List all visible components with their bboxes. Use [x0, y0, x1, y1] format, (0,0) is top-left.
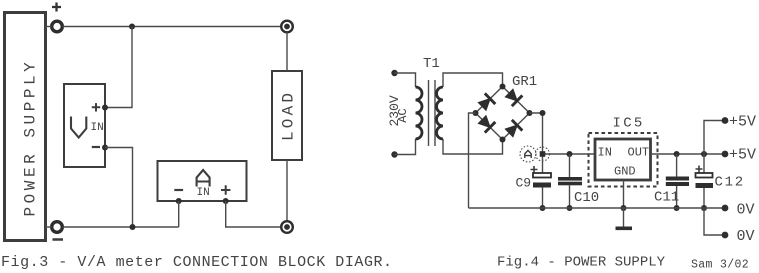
capacitor C11 bottom plate — [666, 182, 689, 186]
node C10 rail — [567, 205, 573, 211]
wire bridge minus to 0V rail — [469, 113, 476, 208]
transformer T1 core — [429, 80, 436, 146]
transformer T1 secondary winding — [437, 87, 444, 139]
wire C10 top — [569, 154, 571, 177]
wire A+ to load terminal — [226, 201, 280, 227]
node bridge top vertex — [500, 84, 506, 90]
svg-text:Fig.4 - POWER SUPPLY: Fig.4 - POWER SUPPLY — [497, 255, 666, 271]
wire A- drop — [178, 201, 180, 227]
node C12 rail — [701, 205, 707, 211]
node measuring point — [540, 151, 546, 157]
wire V+ drop — [105, 27, 132, 108]
terminal +5V upper — [722, 117, 729, 124]
capacitor C10 top plate — [558, 177, 582, 181]
capacitor C9 plus symbol — [531, 166, 538, 173]
measuring point circle — [536, 147, 550, 161]
capacitor C10 bottom plate — [558, 182, 582, 186]
voltmeter plus symbol — [92, 103, 100, 111]
node C9 rail — [540, 205, 546, 211]
node A+ — [223, 198, 229, 204]
wire C12 to rail — [703, 188, 705, 208]
wire terminal to LOAD top — [286, 32, 288, 71]
svg-text:C9: C9 — [516, 176, 532, 191]
ground symbol — [616, 227, 633, 231]
diode D-bottomright — [504, 120, 522, 138]
terminal T1 bottom — [391, 151, 397, 157]
node IN wire C10 — [567, 151, 573, 157]
IC5 regulator box — [595, 139, 651, 180]
node bottom rail V- — [130, 224, 136, 230]
svg-text:0V: 0V — [737, 202, 755, 219]
load block — [272, 71, 302, 160]
wire measuring point to IC5 IN — [543, 153, 596, 155]
wire C12 top — [703, 154, 705, 173]
wire IC5 GND to rail — [623, 180, 625, 208]
wire secondary top to bridge — [443, 73, 503, 87]
svg-text:C12: C12 — [715, 175, 745, 191]
node inside bottom right terminal — [284, 224, 290, 230]
svg-text:T1: T1 — [423, 56, 440, 72]
svg-text:C10: C10 — [574, 190, 599, 206]
diode D-bottomleft — [477, 114, 495, 132]
wire top rail — [63, 26, 280, 28]
ammeter A glyph — [197, 170, 210, 187]
node A- — [176, 198, 182, 204]
node OUT C11 — [674, 151, 680, 157]
terminal bottom right — [281, 221, 293, 233]
wire +5V upper branch — [704, 121, 725, 155]
bridge rectifier GR1 diamond — [476, 87, 530, 140]
wire V- drop — [105, 148, 133, 228]
svg-text:GR1: GR1 — [512, 74, 537, 90]
wire T1 primary top — [395, 73, 416, 87]
svg-text:IN: IN — [598, 146, 612, 160]
node V- — [102, 145, 108, 151]
minus symbol at PS bottom terminal — [53, 238, 64, 241]
wire PS+ stub — [46, 26, 52, 28]
wire T1 primary bottom — [395, 139, 416, 155]
capacitor C12 plus symbol — [696, 166, 703, 173]
ammeter minus symbol — [174, 189, 183, 191]
svg-text:OUT: OUT — [628, 146, 650, 160]
capacitor C11 top plate — [666, 177, 689, 181]
capacitor C9 top plate — [533, 173, 551, 178]
terminal +5V lower — [722, 151, 729, 158]
transformer T1 primary winding — [416, 87, 423, 139]
terminal 0V lower — [722, 232, 729, 239]
svg-text:C11: C11 — [654, 190, 679, 206]
wire 0V lower branch — [704, 208, 725, 235]
node bridge right vertex — [527, 110, 533, 116]
wire bottom rail — [63, 226, 179, 228]
node top rail to voltmeter — [129, 24, 135, 30]
wire C11 bottom — [676, 186, 678, 208]
wire PS- stub — [46, 226, 52, 228]
ammeter A1 box — [158, 161, 247, 201]
ammeter insertion circle A — [520, 146, 536, 162]
svg-text:+5V: +5V — [729, 147, 756, 164]
voltmeter V glyph — [71, 117, 86, 138]
ammeter plus symbol — [221, 185, 230, 194]
wire GND stub — [623, 208, 625, 227]
node V+ — [102, 105, 108, 111]
node bridge left vertex — [473, 110, 479, 116]
svg-text:+5V: +5V — [729, 114, 756, 131]
power supply block PS — [5, 13, 46, 241]
wire secondary bottom to bridge bottom vertex — [443, 139, 503, 154]
capacitor C9 bottom plate — [533, 183, 551, 188]
svg-text:IN: IN — [197, 187, 210, 199]
IC5 dashed outline — [589, 133, 658, 187]
node bridge bottom vertex — [500, 137, 506, 143]
terminal T1 top — [391, 70, 397, 76]
svg-text:Sam 3/02: Sam 3/02 — [691, 259, 749, 272]
diode D-topleft — [477, 93, 495, 111]
wire C9 to rail — [542, 188, 544, 209]
node C11 rail — [674, 205, 680, 211]
node bridge plus corner — [540, 110, 546, 116]
terminal top right — [281, 21, 293, 33]
voltmeter minus symbol — [92, 146, 100, 148]
terminal PS+ — [52, 21, 63, 32]
voltmeter U1 box — [64, 84, 105, 167]
diode D-topright — [504, 88, 522, 106]
svg-text:LOAD: LOAD — [280, 90, 298, 141]
terminal PS- — [52, 222, 63, 233]
wire bridge plus to measuring point — [530, 113, 543, 173]
node GND rail — [621, 205, 627, 211]
plus symbol at PS top terminal — [52, 3, 61, 12]
svg-text:IC5: IC5 — [613, 116, 645, 132]
svg-text:Fig.3 - V/A meter CONNECTION B: Fig.3 - V/A meter CONNECTION BLOCK DIAGR… — [1, 254, 393, 271]
wire 0V rail — [469, 207, 726, 209]
capacitor C12 top plate — [696, 173, 713, 178]
capacitor C12 bottom plate — [696, 183, 714, 188]
svg-text:GND: GND — [614, 165, 636, 179]
wire C11 top — [676, 154, 678, 177]
svg-text:AC: AC — [396, 108, 410, 122]
terminal 0V upper — [722, 205, 729, 212]
wire LOAD bottom to terminal — [286, 160, 288, 221]
node inside top right terminal — [284, 24, 290, 30]
svg-text:0V: 0V — [737, 228, 755, 245]
node OUT C12 — [701, 151, 707, 157]
ammeter insertion A glyph — [525, 150, 531, 158]
wire IC5 OUT rail — [651, 153, 726, 155]
svg-text:IN: IN — [91, 122, 104, 134]
wire C10 bottom — [569, 185, 571, 208]
svg-text:POWER SUPPLY: POWER SUPPLY — [21, 59, 39, 217]
